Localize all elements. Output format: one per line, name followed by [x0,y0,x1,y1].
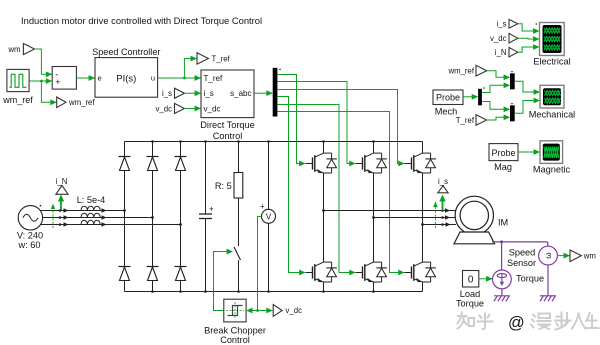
transistor Q1 (IGBT top leg1) [306,153,337,173]
ground (torque) [494,296,510,302]
wire mux2 -> scope [515,98,540,114]
top DC bus [125,140,423,143]
svg-text:v_dc: v_dc [286,306,303,315]
watermark 知乎 @漫步人生 (approximated glyphs) [458,313,599,333]
svg-text:+: + [260,202,265,211]
svg-text:Torque: Torque [456,299,484,309]
block Probe Mech [433,90,463,117]
svg-text:v_dc: v_dc [204,105,221,114]
svg-text:Mechanical: Mechanical [529,110,575,120]
transistor Q3 (IGBT top leg2) [356,153,387,173]
svg-text:T_ref: T_ref [456,116,475,125]
source block wm_ref (pulse generator) [2,69,33,105]
svg-text:Magnetic: Magnetic [533,165,571,175]
svg-text:T_ref: T_ref [204,74,223,83]
from tag i_s (electrical) [497,19,540,34]
svg-text:IM: IM [498,218,508,228]
svg-text:Control: Control [220,335,250,345]
svg-text:+: + [209,205,214,214]
from tag v_dc (electrical) [490,33,539,43]
goto tag T_ref [197,53,231,64]
wire probe mag -> scope [518,149,540,155]
svg-text:Electrical: Electrical [533,57,570,67]
wire demux out1 -> mux1 [482,82,510,92]
svg-text:Mech: Mech [435,107,457,117]
current measurement i_N [51,195,64,229]
goto tag wm (right) [570,250,596,262]
wire chopper control (from BCC output up to switch) [214,249,234,311]
svg-text:ω: ω [544,252,553,259]
AC source V:240 w:60 [17,205,43,250]
rectifier leg 3 [179,142,182,292]
scope Magnetic [533,141,571,175]
goto tag i_N (up) [56,177,68,195]
rectifier leg 2 [151,142,154,292]
svg-text:Mag: Mag [494,162,512,172]
svg-text:Probe: Probe [491,148,515,158]
wire s_abc -> demux [254,90,273,96]
svg-text:wm_ref: wm_ref [447,67,474,76]
svg-text:e: e [98,74,102,83]
transistor Q6 (IGBT bottom leg3) [405,262,436,282]
voltmeter V [260,142,276,292]
goto tag v_dc (bottom) [273,305,302,317]
rectifier leg 1 [123,142,126,292]
inverter leg 3 [421,142,424,292]
svg-text:Control: Control [213,131,243,141]
speed sensor [507,246,557,268]
motor IM [454,196,508,244]
wire torque to ground [501,289,503,296]
svg-text:Direct Torque: Direct Torque [200,120,254,130]
svg-text:@: @ [508,314,525,332]
from tag wm [7,44,34,55]
bottom DC bus [125,290,423,293]
goto tag wm_ref [57,97,96,108]
svg-text:Speed Controller: Speed Controller [92,47,160,57]
svg-text:wm: wm [7,45,20,54]
diode D2 [147,157,159,171]
svg-text:T_ref: T_ref [212,54,231,63]
wire demux out2 -> mux2 [482,102,510,113]
wire gate g3 (top leg2) [277,82,355,167]
op block PI(s) Speed Controller [92,47,160,97]
wire shaft (motor to sensors) [492,240,548,270]
wire sum -> PI [76,75,95,81]
wire sensor to ground [547,265,549,296]
current measurement i_s (motor) [433,195,446,229]
block Direct Torque Control [200,70,254,141]
wire phase b [43,215,153,220]
resistor R: 5 (brake chopper) [215,142,243,199]
svg-text:u: u [151,74,155,83]
capacitor C (DC link) [199,142,214,292]
inverter leg 2 [372,142,375,292]
svg-text:Induction motor drive controll: Induction motor drive controlled with Di… [21,15,262,26]
transistor Q2 (IGBT bottom leg1) [306,262,337,282]
wire wm -> sum minus input [35,49,53,77]
svg-text:R: 5: R: 5 [215,181,232,191]
svg-text:v_dc: v_dc [490,34,507,43]
wire load torque -> torque source [479,276,493,282]
torque source [493,270,545,289]
svg-text:Sensor: Sensor [507,258,536,268]
block Break Chopper Control (relay, mirrored) [204,299,266,345]
svg-text:Torque: Torque [516,274,544,284]
goto tag i_s (up) [438,177,448,193]
block Probe Mag [489,144,518,172]
wire phase A to motor [324,208,456,213]
svg-text:0: 0 [468,275,474,286]
svg-text:Probe: Probe [436,93,460,103]
transistor Q4 (IGBT bottom leg2) [356,262,387,282]
svg-text:Load: Load [460,289,480,299]
svg-text:L: 5e-4: L: 5e-4 [77,195,106,205]
transistor Q5 (IGBT top leg3) [405,153,436,173]
wire phase c [40,222,181,227]
svg-text:w: 60: w: 60 [18,240,41,250]
wire wm_ref -> sum plus input [29,78,52,84]
wire phase a (source to rectifier leg1) [40,208,125,213]
demux bar (probe mech) [478,87,485,105]
svg-text:V: V [266,213,272,222]
svg-text:i_N: i_N [56,177,68,186]
wire v_dc measurement [246,217,273,314]
wire u -> DTC T_ref, branch to goto T_ref [158,56,201,81]
from tag i_N (electrical) [495,44,540,57]
wire probe -> demux [463,94,478,100]
wire gate g5 (top leg3) [277,90,404,167]
mux bar 1 [510,71,515,90]
inductor L: 5e-4 (three phase) [77,195,106,225]
wire gate g1 (top leg1) [277,75,305,167]
svg-text:wm: wm [583,252,596,261]
svg-text:i_s: i_s [162,89,172,98]
from tag v_dc (to DTC) [156,103,201,113]
diode D5 [147,267,159,281]
wire branch to goto wm_ref [41,81,56,105]
wire phase C to motor [423,222,457,227]
sum block [52,67,76,90]
svg-text:i_N: i_N [495,48,507,57]
wire phase B to motor [374,215,456,220]
svg-text:s_abc: s_abc [230,89,251,98]
wire wm output [557,253,570,259]
ground (speed sensor) [540,296,556,302]
svg-text:PI(s): PI(s) [116,74,136,85]
svg-text:Speed: Speed [509,247,536,257]
svg-text:wm_ref: wm_ref [2,95,33,105]
from tag T_ref (mechanical) [456,114,510,125]
inverter leg 1 [322,142,325,292]
mux bar 2 [510,103,515,122]
wire gate g2 (bottom leg1) [277,97,305,276]
demux bar [273,68,281,117]
wire mux1 -> scope [515,81,540,95]
from tag i_s (to DTC) [162,88,201,98]
wire gate g6 (bottom leg3) [277,112,404,276]
svg-text:i_s: i_s [438,177,448,186]
diode D4 [119,267,131,281]
scope Mechanical [529,85,575,119]
wire gate g4 (bottom leg2) [277,105,355,276]
svg-text:Break Chopper: Break Chopper [204,326,266,336]
svg-text:i_s: i_s [497,20,507,29]
source block Load Torque (constant 0) [456,271,484,309]
svg-text:+: + [55,77,60,87]
diode D1 [119,157,131,171]
diode D6 [175,267,187,281]
svg-text:wm_ref: wm_ref [68,98,95,107]
switch (chopper) [234,198,241,292]
svg-text:v_dc: v_dc [156,104,173,113]
svg-text:i_s: i_s [204,89,214,98]
scope Electrical [533,23,570,67]
diode D3 [175,157,187,171]
from tag wm_ref (mechanical) [447,65,510,80]
